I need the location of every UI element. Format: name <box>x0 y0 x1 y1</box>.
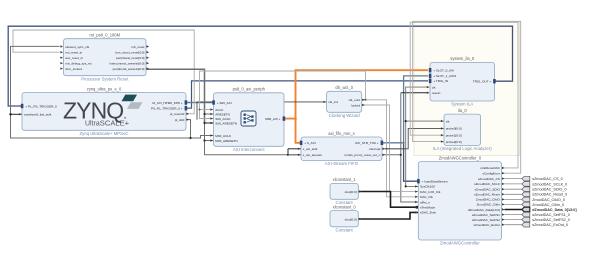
wire M_AXI_HPM0_FPD to S00_AXI <box>186 102 214 104</box>
wire s_axi_aresetn run into fifo <box>288 154 301 156</box>
svg-text:system_ila_0: system_ila_0 <box>450 56 475 61</box>
svg-text:probe0[0:0]: probe0[0:0] <box>446 127 462 131</box>
port periph M00_ACLK <box>210 134 232 138</box>
port zynq pl_resetn0 <box>170 112 189 116</box>
port clk_wiz clk_out1 <box>349 98 365 102</box>
external port sZmodDAC_Reset_0 <box>522 192 567 197</box>
wire wire to external port row 5 <box>505 203 522 205</box>
port periph ARESETN <box>210 112 230 116</box>
svg-text:aux_reset_in: aux_reset_in <box>65 56 83 60</box>
external port sZmodDAC_SDIO_0 <box>522 187 567 192</box>
svg-text:+ PL_PS_TRIGGER_0: + PL_PS_TRIGGER_0 <box>25 104 57 108</box>
svg-text:sZmodDAC_SetFS2_0: sZmodDAC_SetFS2_0 <box>532 218 570 222</box>
svg-text:AXI Interconnect: AXI Interconnect <box>233 147 266 152</box>
block ps8_0_axi_periph <box>214 87 285 152</box>
wire clk branch to x405 riser <box>387 148 406 150</box>
svg-text:bus_struct_reset[0:0]: bus_struct_reset[0:0] <box>116 51 145 55</box>
svg-text:dcm_locked: dcm_locked <box>65 67 82 71</box>
wire wire to external port row 0 <box>505 178 522 180</box>
port clk_wiz clk_in1 <box>324 100 339 104</box>
port zmod sZmodDAC_Reset <box>474 193 504 197</box>
wire xlconstant_1 dout to sTestMode <box>358 192 418 208</box>
wire pl_clk0 branch along bottom to M00_ACLK <box>191 136 214 139</box>
svg-text:+ SLOT_1_AXIS: + SLOT_1_AXIS <box>433 74 456 78</box>
svg-text:ARESETN: ARESETN <box>215 112 230 116</box>
external port ZmodDAC_ClkIn_0 <box>522 202 564 207</box>
wire pl_resetn0 to ext_reset_in <box>13 30 194 114</box>
junction clk junction bottom <box>189 137 191 139</box>
port zmod dZmodDAC_Data[13:0] <box>468 208 505 212</box>
svg-text:sZmodDAC_CS_0: sZmodDAC_CS_0 <box>532 177 562 181</box>
port rst bus_struct_reset[0:0] <box>116 51 150 55</box>
port ila probe1 <box>441 134 462 138</box>
wire wire to external port row 4 <box>505 198 522 200</box>
port ila probe2 <box>441 140 462 144</box>
port zmod ZmodDAC_ClkIO <box>476 198 505 202</box>
wire s_axi_aclk stub <box>288 148 301 150</box>
svg-text:clk_in1: clk_in1 <box>328 100 338 104</box>
port zmod aRst_n <box>415 200 430 204</box>
interconnect crossbar icon <box>241 111 256 126</box>
svg-text:sTestMode: sTestMode <box>420 206 435 210</box>
port sila SLOT_0_AXI <box>429 68 454 73</box>
port sila TRIG_OUT <box>473 79 496 84</box>
svg-text:Zynq UltraScale+ MPSoC: Zynq UltraScale+ MPSoC <box>79 131 128 136</box>
svg-text:ACLK: ACLK <box>215 108 224 112</box>
svg-text:sZmodDAC_EnOut: sZmodDAC_EnOut <box>473 223 500 227</box>
svg-text:sZmodDAC_CS: sZmodDAC_CS <box>478 177 500 181</box>
junction axis junction <box>403 142 405 144</box>
wire wire to external port row 7 <box>505 214 522 216</box>
wire M00_AXI branch down to axi_fifo S_AXI <box>296 119 302 143</box>
svg-text:ZmodDAC_ClkIO: ZmodDAC_ClkIO <box>476 198 500 202</box>
wire TRIG_OUT loop (system_ila_0 to zynq PL_PS_TRIGGER_0) <box>8 26 512 106</box>
svg-text:clk: clk <box>432 85 436 89</box>
wire clk_out1 loop to ACLK column <box>200 71 366 119</box>
wire clk riser to system_ila clk <box>406 87 428 149</box>
wire clk stub ACLK <box>200 109 214 111</box>
svg-text:ZmodDAC_ClkIO_0: ZmodDAC_ClkIO_0 <box>532 198 565 202</box>
port ila probe0 <box>441 127 462 131</box>
external port ZmodDAC_ClkIO_0 <box>522 197 565 202</box>
junction clk j8 <box>386 148 388 150</box>
port periph S00_AXI <box>212 100 231 105</box>
svg-text:dZmodDAC_Data[13:0]: dZmodDAC_Data[13:0] <box>468 208 500 212</box>
port periph ACLK <box>210 108 224 112</box>
port zynq pl_clk0 <box>175 118 189 122</box>
svg-text:Processor System Reset: Processor System Reset <box>81 76 129 81</box>
svg-text:SysClk100: SysClk100 <box>420 185 435 189</box>
svg-text:mb_reset: mb_reset <box>131 45 144 49</box>
svg-text:pl_clk0: pl_clk0 <box>175 118 185 122</box>
external port sZmodDAC_CS_0 <box>522 176 563 181</box>
block xlconstant_1 <box>330 177 358 205</box>
port zmod sZmodDAC_SDIO <box>475 188 505 192</box>
block ZmodAWGController_0 <box>418 155 501 245</box>
svg-text:probe1[0:0]: probe1[0:0] <box>446 134 462 138</box>
junction clk junction left <box>9 113 11 115</box>
port zmod sZmodDAC_SCLK <box>474 182 504 186</box>
block xlconstant_0 <box>330 204 358 232</box>
svg-text:sZmodDAC_SDIO_0: sZmodDAC_SDIO_0 <box>532 188 566 192</box>
junction fifo j <box>287 154 289 156</box>
wire wire to external port row 9 <box>505 224 522 226</box>
external port sZmodDAC_EnOut_0 <box>522 222 568 227</box>
port periph M00_AXI <box>265 116 285 121</box>
wire pl_clk0 branch to maxihpm0_fpd_aclk <box>11 113 23 115</box>
block rst_ps8_0_100M <box>64 33 147 82</box>
port const1 dout <box>345 190 362 194</box>
svg-text:clk_wiz_0: clk_wiz_0 <box>335 85 353 90</box>
svg-text:sZmodDAC_Reset_0: sZmodDAC_Reset_0 <box>532 193 567 197</box>
svg-text:interrupt: interrupt <box>369 147 380 151</box>
block ila_0 <box>433 108 492 151</box>
external port sZmodDAC_SetFS2_0 <box>522 217 570 222</box>
port sila SLOT_1_AXIS <box>429 74 456 79</box>
svg-text:System ILA: System ILA <box>451 102 473 107</box>
external port sZmodDAC_SCLK_0 <box>522 182 567 187</box>
svg-text:sZmodDAC_SCLK_0: sZmodDAC_SCLK_0 <box>532 182 567 186</box>
zynq logo ZYNQ. <box>63 95 142 128</box>
junction clk j10 <box>405 185 407 187</box>
svg-text:sZmodDAC_SCLK: sZmodDAC_SCLK <box>474 182 501 186</box>
svg-text:dout[0:0]: dout[0:0] <box>345 190 357 194</box>
wire clk branch to clk_in1 (hidden under interconnect) <box>197 102 327 120</box>
port zynq maxihpm0_fpd_aclk <box>19 113 52 117</box>
block axi_fifo_mm_s <box>301 131 382 166</box>
svg-text:sInitDoneDAC: sInitDoneDAC <box>480 166 500 170</box>
junction const1 dot <box>416 206 419 209</box>
svg-text:interconnect_aresetn[0:0]: interconnect_aresetn[0:0] <box>109 62 144 66</box>
wire clk branch Zmod SysClk100 <box>406 149 419 187</box>
wire sConfigError loop to probe2 <box>413 21 521 173</box>
svg-text:sConfigError: sConfigError <box>483 172 500 176</box>
wire aresetn stub ARESETN <box>205 113 214 115</box>
svg-text:peripheral_reset[0:0]: peripheral_reset[0:0] <box>116 56 145 60</box>
port zmod ZmodDAC_ClkIn <box>477 203 505 207</box>
wire clk branch ila clk <box>406 120 444 122</box>
svg-text:ZmodDAC_ClkIn: ZmodDAC_ClkIn <box>477 203 500 207</box>
port zmod sConfigError <box>483 172 505 176</box>
svg-text:Constant: Constant <box>336 227 354 232</box>
svg-text:PS_PL_TRIGGER_0 +: PS_PL_TRIGGER_0 + <box>151 107 183 111</box>
external port sZmodDAC_SetFS1_0 <box>522 212 570 217</box>
svg-text:ILA (Integrated Logic Analyzer: ILA (Integrated Logic Analyzer) <box>433 146 492 151</box>
port fifo s_axi_aresetn <box>298 153 322 157</box>
svg-text:peripheral_aresetn[0:0]: peripheral_aresetn[0:0] <box>113 67 145 71</box>
svg-text:probe2[0:0]: probe2[0:0] <box>446 140 462 144</box>
junction clk j5 <box>199 109 201 111</box>
svg-text:ila_0: ila_0 <box>458 108 467 113</box>
svg-text:DAC_InIO_Clk: DAC_InIO_Clk <box>420 190 441 194</box>
port rst slowest_sync_clk <box>60 45 89 49</box>
port sila TRIG_IN <box>429 79 448 84</box>
svg-text:slowest_sync_clk: slowest_sync_clk <box>65 45 89 49</box>
wire aresetn stub M00_ARESETN <box>205 140 214 142</box>
svg-text:+ TRIG_IN: + TRIG_IN <box>433 79 448 83</box>
svg-text:ZmodAWGController_0: ZmodAWGController_0 <box>439 155 482 160</box>
svg-text:zynq_ultra_ps_e_0: zynq_ultra_ps_e_0 <box>87 86 122 91</box>
block clk_wiz_0 <box>327 85 362 118</box>
svg-text:sZmodDAC_SetFS1: sZmodDAC_SetFS1 <box>472 213 500 217</box>
port zynq PL_PS_TRIGGER_0 <box>21 104 57 109</box>
port zmod InputDataStream <box>417 179 448 184</box>
port rst mb_reset <box>131 45 149 49</box>
svg-text:Clocking Wizard: Clocking Wizard <box>329 113 361 118</box>
svg-text:s_axi_aresetn: s_axi_aresetn <box>303 153 323 157</box>
port zmod sDAC_EnIn <box>415 211 436 215</box>
junction aresetn j1 <box>203 113 205 115</box>
svg-text:sDAC_EnIn: sDAC_EnIn <box>420 211 436 215</box>
svg-text:sZmodDAC_SetFS1_0: sZmodDAC_SetFS1_0 <box>532 213 570 217</box>
wire pl_clk0 loop to slowest_sync_clk / maxihpm0_fpd_aclk / M00_ACLK <box>11 46 191 138</box>
svg-text:+ S_AXI: + S_AXI <box>304 141 316 145</box>
block zynq_ultra_ps_e_0 <box>22 86 186 136</box>
svg-text:mb_debug_sys_rst: mb_debug_sys_rst <box>65 62 91 66</box>
wire s_axi stub vertical <box>287 149 289 155</box>
svg-text:dZmodDAC_Data_0[13:0]: dZmodDAC_Data_0[13:0] <box>532 208 577 212</box>
svg-text:resetn: resetn <box>432 91 441 95</box>
wire wire to external port row 6 <box>505 209 522 211</box>
svg-text:sZmodDAC_SetFS2: sZmodDAC_SetFS2 <box>472 218 500 222</box>
svg-text:sZmodDAC_Reset: sZmodDAC_Reset <box>474 193 500 197</box>
port const0 dout <box>345 217 362 221</box>
port fifo s_axi_aclk <box>298 147 318 151</box>
port rst ext_reset_in <box>60 51 82 55</box>
port rst peripheral_reset[0:0] <box>116 56 149 60</box>
wire clk_out1 right distribution <box>362 100 419 197</box>
svg-text:M_AXI_HPM0_FPD +: M_AXI_HPM0_FPD + <box>152 101 182 105</box>
svg-text:ZmodAWGController: ZmodAWGController <box>440 241 480 246</box>
junction aresetn j3 <box>203 139 205 141</box>
wire wire to external port row 2 <box>505 188 522 190</box>
svg-text:aRst_n: aRst_n <box>420 200 430 204</box>
svg-text:xlconstant_1: xlconstant_1 <box>333 177 357 182</box>
svg-text:maxihpm0_fpd_aclk: maxihpm0_fpd_aclk <box>24 113 52 117</box>
wire xlconstant_0 dout to sDAC_EnIn <box>358 212 418 219</box>
port zmod DAC_InIO_Clk <box>415 190 441 194</box>
port zmod sZmodDAC_SetFS1 <box>472 213 505 217</box>
svg-text:dout[0:0]: dout[0:0] <box>345 217 357 221</box>
svg-text:DAC_Clk: DAC_Clk <box>420 195 433 199</box>
svg-text:S00_ARESETN: S00_ARESETN <box>215 121 237 125</box>
svg-text:M00_ARESETN: M00_ARESETN <box>215 139 237 143</box>
svg-text:clk_out1: clk_out1 <box>349 98 361 102</box>
port rst interconnect_aresetn[0:0] <box>109 62 149 66</box>
port fifo mm2s_prmry_reset_out_n <box>344 153 385 157</box>
wire sInitDoneDAC loop to probe1 <box>410 22 518 168</box>
port periph M00_ARESETN <box>210 139 237 143</box>
svg-text:M00_ACLK: M00_ACLK <box>215 134 232 138</box>
port zmod sZmodDAC_SetFS2 <box>472 218 505 222</box>
svg-text:axi_fifo_mm_s: axi_fifo_mm_s <box>328 131 354 136</box>
port sila clk <box>427 85 436 89</box>
port zmod sTestMode <box>415 206 435 210</box>
svg-text:locked: locked <box>351 103 360 107</box>
port zmod sZmodDAC_EnOut <box>473 223 504 227</box>
port zmod sZmodDAC_CS <box>478 177 505 181</box>
wire wire to external port row 1 <box>505 183 522 185</box>
external port dZmodDAC_Data_0[13:0] <box>522 207 578 212</box>
svg-text:ps8_0_axi_periph: ps8_0_axi_periph <box>233 87 266 92</box>
port ila clk <box>441 119 450 123</box>
wire M00_AXI net (orange) to SLOT_0_AXI and S_AXI <box>284 70 428 118</box>
port zmod DAC_Clk <box>415 195 433 199</box>
svg-text:mm2s_prmry_reset_out_n: mm2s_prmry_reset_out_n <box>344 153 380 157</box>
wire locked to DAC_InIO_Clk <box>362 105 419 192</box>
svg-text:clk: clk <box>446 119 450 123</box>
svg-text:sZmodDAC_EnOut_0: sZmodDAC_EnOut_0 <box>532 223 568 227</box>
port sila resetn <box>427 91 441 95</box>
group frame (pale yellow comment box around ILA column) <box>414 22 520 156</box>
junction orange junction <box>294 117 297 120</box>
wire resetn riser to system_ila resetn / Zmod aRst_n <box>401 92 428 94</box>
wire resetn riser vertical <box>401 93 419 202</box>
port clk_wiz locked <box>351 103 365 107</box>
svg-text:pl_resetn0: pl_resetn0 <box>170 112 185 116</box>
svg-text:+ SLOT_0_AXI: + SLOT_0_AXI <box>433 69 454 73</box>
block system_ila_0 <box>430 56 495 106</box>
junction clk j9 <box>405 120 407 122</box>
svg-text:ZmodDAC_ClkIn_0: ZmodDAC_ClkIn_0 <box>532 203 564 207</box>
wire PS_PL_TRIGGER_0 to TRIG_IN <box>186 81 428 108</box>
wire aresetn down to s_axi_aresetn run <box>205 123 401 155</box>
port periph S00_ACLK <box>210 117 231 121</box>
wire AXI_STR_TXD to SLOT_1_AXIS <box>382 76 428 143</box>
svg-text:M00_AXI +: M00_AXI + <box>265 117 281 121</box>
port zynq M_AXI_HPM0_FPD <box>152 100 187 105</box>
port periph S00_ARESETN <box>210 121 237 125</box>
svg-text:S00_ACLK: S00_ACLK <box>215 117 231 121</box>
port rst mb_debug_sys_rst <box>60 62 91 66</box>
wire wire to external port row 3 <box>505 193 522 195</box>
junction clk j6 <box>365 99 367 101</box>
junction resetn j4 <box>400 154 402 156</box>
svg-text:AXI_STR_TXD +: AXI_STR_TXD + <box>355 141 379 145</box>
port rst aux_reset_in <box>60 56 83 60</box>
junction aresetn j2 <box>203 122 205 124</box>
svg-text:+ S00_AXI: + S00_AXI <box>217 101 232 105</box>
svg-text:sZmodDAC_SDIO: sZmodDAC_SDIO <box>475 188 501 192</box>
port zmod SysClk100 <box>415 185 435 189</box>
port rst dcm_locked <box>60 67 82 71</box>
svg-text:rst_ps8_0_100M: rst_ps8_0_100M <box>90 33 121 38</box>
svg-text:ext_reset_in: ext_reset_in <box>65 51 82 55</box>
port fifo AXI_STR_TXD <box>355 141 383 146</box>
port zynq PS_PL_TRIGGER_0 <box>151 106 187 111</box>
port fifo S_AXI <box>300 141 316 146</box>
svg-text:+ InputDataStream: + InputDataStream <box>422 180 448 184</box>
wire peripheral_aresetn to ARESETN column <box>146 69 214 123</box>
wire interrupt to probe0 <box>382 128 444 148</box>
svg-text:s_axi_aclk: s_axi_aclk <box>303 147 318 151</box>
svg-text:UltraSCALE+: UltraSCALE+ <box>85 118 130 127</box>
svg-text:TRIG_OUT +: TRIG_OUT + <box>473 80 491 84</box>
svg-text:AXI-Stream FIFO: AXI-Stream FIFO <box>325 161 359 166</box>
wire AXI_STR_TXD branch to InputDataStream <box>404 143 419 181</box>
svg-text:xlconstant_0: xlconstant_0 <box>333 204 357 209</box>
port rst peripheral_aresetn[0:0] <box>113 67 150 71</box>
wire wire to external port row 8 <box>505 219 522 221</box>
port zmod sInitDoneDAC <box>480 166 504 170</box>
port fifo interrupt <box>369 147 385 151</box>
